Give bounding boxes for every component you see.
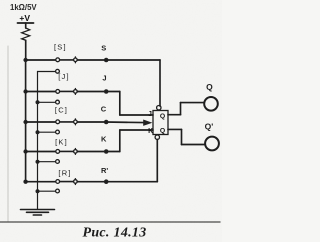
- switch C throw stub: [38, 131, 56, 133]
- switch J left contact: [56, 90, 60, 94]
- wire S down to FF set pin: [159, 60, 161, 106]
- switch J lever: [60, 90, 74, 92]
- switch S pole: [74, 57, 78, 63]
- switch K left contact: [56, 150, 60, 154]
- node C dot: [104, 120, 109, 125]
- svg-text:Q: Q: [160, 113, 165, 120]
- svg-text:S: S: [101, 43, 106, 52]
- wire K corner up: [119, 130, 121, 152]
- frame left border: [7, 46, 9, 222]
- switch K throw junction: [36, 160, 40, 164]
- wire node S right: [106, 59, 161, 61]
- wire switch C to node C: [77, 121, 105, 123]
- frame bottom border: [0, 221, 220, 223]
- switch R left contact: [56, 180, 60, 184]
- svg-text:[C]: [C]: [55, 106, 68, 115]
- switch K lever: [60, 150, 74, 152]
- switch R throw contact: [56, 189, 60, 193]
- svg-text:+V: +V: [19, 13, 30, 23]
- svg-text:R': R': [101, 166, 108, 175]
- set bubble: [157, 106, 161, 110]
- switch S left contact: [56, 58, 60, 62]
- switch S lever: [60, 59, 74, 61]
- wire switch K to node K: [77, 151, 105, 153]
- wire Q' down: [181, 129, 183, 144]
- svg-text:J: J: [102, 74, 106, 83]
- ground: [21, 210, 55, 216]
- node C-bus junction: [23, 120, 27, 124]
- svg-text:Q': Q': [205, 122, 214, 132]
- wire bus to switch J: [26, 91, 56, 93]
- svg-text:[J]: [J]: [58, 72, 70, 81]
- wire node K right: [106, 151, 120, 153]
- switch C pole: [74, 119, 78, 125]
- node R-bus junction: [23, 180, 27, 184]
- flip-flop body: [153, 111, 168, 135]
- node J-bus junction: [23, 89, 27, 93]
- wire node J right: [106, 91, 120, 93]
- wire switch S to node S: [77, 59, 105, 61]
- svg-text:C: C: [101, 105, 107, 114]
- switch J throw contact: [56, 100, 60, 104]
- svg-text:J: J: [148, 111, 152, 118]
- wire +V bar to resistor: [25, 23, 27, 28]
- wire Q output: [168, 114, 181, 116]
- wire K into FF: [120, 129, 153, 131]
- switch S throw contact: [56, 69, 60, 73]
- svg-text:K: K: [148, 128, 153, 135]
- wire bus to switch C: [26, 121, 56, 123]
- svg-text:[K]: [K]: [55, 137, 68, 146]
- switch K throw stub: [38, 161, 56, 163]
- switch S throw stub to ground: [38, 71, 56, 73]
- wire node C to clock arrow: [106, 121, 145, 124]
- reset bubble: [155, 135, 159, 139]
- paper background: [0, 0, 222, 242]
- svg-text:[S]: [S]: [54, 42, 67, 51]
- switch C left contact: [56, 120, 60, 124]
- wire bus to switch S: [26, 59, 56, 61]
- switch R lever: [60, 181, 74, 183]
- node K-bus junction: [23, 149, 27, 153]
- node J dot: [104, 89, 109, 94]
- node R dot: [104, 179, 109, 184]
- lamp Q': [205, 137, 219, 151]
- switch J pole: [74, 89, 78, 95]
- power +V bar: [18, 22, 34, 24]
- node K dot: [104, 149, 109, 154]
- switch C lever: [60, 121, 74, 123]
- wire J corner down: [119, 92, 121, 116]
- switch R throw stub: [38, 190, 56, 192]
- wire node R right: [106, 181, 158, 183]
- wire Q' to lamp: [182, 144, 206, 146]
- wire bus to switch R: [26, 181, 56, 183]
- wire Q' output: [168, 128, 182, 130]
- wire switch J to node J: [77, 91, 105, 93]
- wire Q to lamp: [181, 102, 205, 104]
- lamp Q: [204, 97, 218, 111]
- switch K throw contact: [56, 160, 60, 164]
- clock arrow: [143, 120, 152, 126]
- resistor R1 1kOhm zigzag: [22, 28, 30, 40]
- wire ground bus vertical: [37, 72, 39, 210]
- switch J throw junction: [36, 100, 40, 104]
- switch K pole: [74, 149, 78, 155]
- wire J into FF: [120, 114, 153, 116]
- switch C throw junction: [36, 130, 40, 134]
- wire Q up: [180, 103, 182, 115]
- wire R up to FF reset pin: [156, 139, 158, 181]
- wire switch R to node R: [77, 181, 105, 183]
- switch R pole: [74, 179, 78, 185]
- wire bus to switch K: [26, 151, 56, 153]
- switch R throw junction: [36, 189, 40, 193]
- svg-text:[R]: [R]: [58, 168, 71, 177]
- svg-text:Q: Q: [206, 82, 213, 92]
- wire resistor to bus: [25, 40, 27, 60]
- switch J throw stub: [38, 101, 56, 103]
- svg-text:Рис. 14.13: Рис. 14.13: [82, 226, 146, 241]
- wire +V bus vertical: [25, 60, 27, 182]
- svg-text:K: K: [101, 134, 107, 143]
- node S dot: [104, 58, 109, 63]
- switch C throw contact: [56, 130, 60, 134]
- svg-text:1kΩ/5V: 1kΩ/5V: [10, 3, 37, 12]
- svg-text:Q: Q: [160, 127, 165, 134]
- node S-bus junction: [23, 58, 27, 62]
